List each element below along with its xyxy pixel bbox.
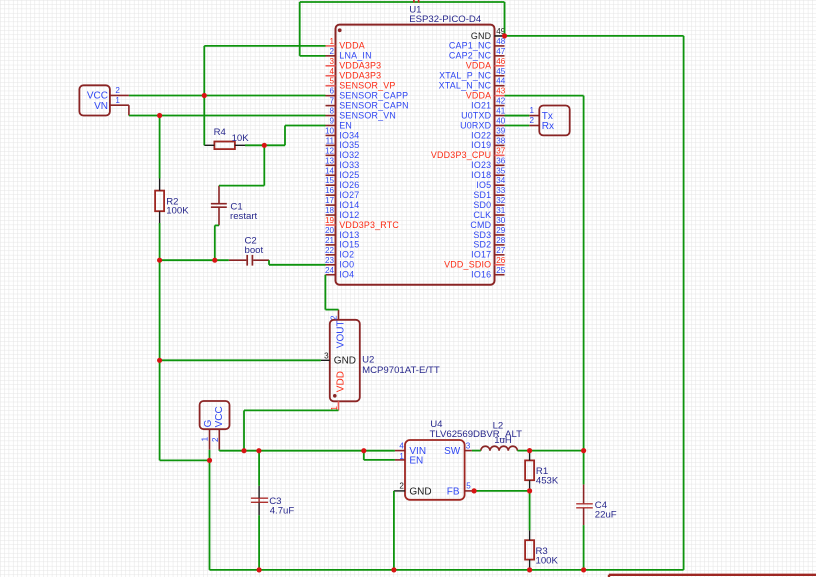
svg-text:IO22: IO22 <box>471 130 491 140</box>
svg-text:GND: GND <box>409 486 431 497</box>
U1 pin 9 EN <box>326 117 353 131</box>
svg-text:14: 14 <box>325 166 335 175</box>
U1 pin 12 IO32 <box>325 146 359 160</box>
wire U2 VDD branch vertical <box>243 410 245 450</box>
U4 pin 2 GND <box>394 481 432 497</box>
U1 pin 42 IO21 <box>471 97 506 111</box>
wire U0RXD to Rx <box>505 125 530 127</box>
svg-text:ESP32-PICO-D4: ESP32-PICO-D4 <box>409 14 482 25</box>
node U4 GND rail junction <box>391 567 396 572</box>
svg-text:29: 29 <box>496 226 506 235</box>
svg-text:LNA_IN: LNA_IN <box>339 51 371 61</box>
wire VIN rail horizontal <box>219 450 395 452</box>
svg-text:1: 1 <box>200 436 209 441</box>
svg-text:IO17: IO17 <box>471 250 491 260</box>
svg-text:G: G <box>203 419 214 427</box>
svg-text:4: 4 <box>329 67 334 76</box>
svg-text:restart: restart <box>230 211 258 222</box>
svg-text:IO25: IO25 <box>339 170 359 180</box>
U1 pin 5 SENSOR_VP <box>326 77 396 91</box>
U1 pin 21 IO15 <box>325 236 359 250</box>
svg-text:9: 9 <box>329 117 334 126</box>
wire U2 GND to R2 column <box>160 359 321 361</box>
svg-text:26: 26 <box>496 256 506 265</box>
wire C1 branch horizontal <box>219 185 264 187</box>
node G pin junction <box>207 458 212 463</box>
svg-text:3: 3 <box>324 351 329 360</box>
svg-text:38: 38 <box>496 136 506 145</box>
svg-text:IO2: IO2 <box>339 250 354 260</box>
svg-text:VOUT: VOUT <box>335 320 346 348</box>
connector pin 2 VCC stub <box>211 429 220 449</box>
svg-text:42: 42 <box>496 97 506 106</box>
svg-text:2: 2 <box>211 437 220 442</box>
resistor R2 leads <box>159 179 161 224</box>
svg-text:IO14: IO14 <box>339 200 359 210</box>
svg-text:R4: R4 <box>214 127 227 138</box>
node FB/R1/R3 junction <box>527 488 532 493</box>
connector J2 Tx/Rx body <box>539 106 569 136</box>
svg-text:47: 47 <box>496 47 506 56</box>
U1 pin 32 SD0 <box>473 196 505 210</box>
U1 pin 49 GND <box>471 27 506 41</box>
U1 pin 15 IO26 <box>325 176 359 190</box>
U2 pin 1 VDD <box>330 371 346 411</box>
svg-text:7: 7 <box>329 97 334 106</box>
svg-text:MCP9701AT-E/TT: MCP9701AT-E/TT <box>362 365 440 376</box>
wire bottom GND rail <box>210 569 684 571</box>
wire VCC junction down to R4 <box>203 96 205 146</box>
svg-text:VDD3P3_CPU: VDD3P3_CPU <box>431 150 491 160</box>
node L2/R1 junction <box>527 448 532 453</box>
svg-text:6: 6 <box>329 87 334 96</box>
node boot/C1 junction <box>212 258 217 263</box>
U1 pin 28 SD2 <box>473 236 505 250</box>
resistor R1 <box>525 460 534 480</box>
svg-text:IO13: IO13 <box>339 230 359 240</box>
U1 pin 3 VDDA3P3 <box>326 57 382 71</box>
svg-text:1uH: 1uH <box>494 435 512 446</box>
svg-text:10K: 10K <box>232 133 250 144</box>
svg-text:SENSOR_VN: SENSOR_VN <box>339 110 396 120</box>
svg-text:21: 21 <box>325 236 335 245</box>
svg-text:IO32: IO32 <box>339 150 359 160</box>
wire VCC net horizontal to U1 pin 6 <box>129 95 326 97</box>
U1 pin 2 LNA_IN <box>326 47 372 61</box>
U1 pin 47 CAP2_NC <box>449 47 506 61</box>
svg-text:100K: 100K <box>536 556 559 567</box>
svg-text:VDDA: VDDA <box>339 41 365 51</box>
U1 pin 14 IO25 <box>325 166 359 180</box>
svg-text:U0TXD: U0TXD <box>461 110 491 120</box>
U1 pin 45 XTAL_P_NC <box>439 67 506 81</box>
node U2 GND junction <box>157 358 162 363</box>
svg-text:3: 3 <box>466 442 471 451</box>
wire R4 right to EN corner <box>245 144 285 146</box>
wire U1 pin 24 to U2 VOUT <box>325 275 338 310</box>
svg-text:EN: EN <box>339 120 352 130</box>
svg-text:11: 11 <box>326 136 335 145</box>
U1 pin 24 IO4 <box>325 266 354 280</box>
wire U0TXD to Tx <box>505 115 530 117</box>
svg-text:12: 12 <box>325 146 335 155</box>
svg-text:8: 8 <box>329 107 334 116</box>
op-amp U4 body (TLV62569 regulator outline) <box>405 440 465 500</box>
node VDD branch junction <box>241 448 246 453</box>
svg-text:30: 30 <box>496 216 506 225</box>
svg-text:33: 33 <box>496 186 506 195</box>
U1 pin 48 CAP1_NC <box>449 37 506 51</box>
svg-text:16: 16 <box>325 186 335 195</box>
U1 pin 39 IO22 <box>471 126 506 140</box>
inductor L2 <box>481 446 518 451</box>
U1 pin 46 VDDA <box>466 57 506 71</box>
svg-text:20: 20 <box>325 226 335 235</box>
svg-text:IO19: IO19 <box>471 140 491 150</box>
svg-text:SENSOR_CAPN: SENSOR_CAPN <box>339 100 409 110</box>
wire G VCC pin down <box>218 450 220 451</box>
wire boot net horizontal <box>160 259 229 261</box>
svg-text:39: 39 <box>496 126 506 135</box>
U1 pin 23 IO0 <box>325 256 354 270</box>
wire LNA_IN vertical <box>299 2 301 56</box>
wire LNA_IN to U1 pin 2 <box>300 55 326 57</box>
svg-text:CLK: CLK <box>473 210 491 220</box>
power symbol tick 1 (cut off at top) <box>413 0 415 3</box>
svg-text:VDDA: VDDA <box>466 90 492 100</box>
wire bottom-left column horizontal <box>160 459 210 461</box>
power symbol tick 2 (cut off at top) <box>418 0 420 3</box>
wire C4 bottom to rail <box>583 525 585 570</box>
svg-text:46: 46 <box>496 57 506 66</box>
svg-text:IO21: IO21 <box>471 100 491 110</box>
svg-text:SD2: SD2 <box>473 240 491 250</box>
U1 pin 41 U0TXD <box>461 107 506 121</box>
wire EN jog vertical <box>363 451 365 460</box>
wire FB junction to R3 <box>529 491 531 531</box>
frame border (bottom right) <box>609 575 816 577</box>
svg-text:XTAL_N_NC: XTAL_N_NC <box>439 81 492 91</box>
wire U2 VDD net horizontal <box>244 409 339 411</box>
node C3 rail junction <box>257 567 262 572</box>
connector J3 G/VCC body <box>200 401 230 429</box>
svg-text:SD3: SD3 <box>473 230 491 240</box>
wire C3 top <box>258 451 260 486</box>
U2 pin 3 GND <box>321 351 356 366</box>
wire R2 column bottom <box>159 223 161 460</box>
U1 pin 13 IO33 <box>325 156 359 170</box>
connector pin 2 Rx stub <box>529 116 539 125</box>
svg-text:44: 44 <box>496 77 506 86</box>
wire C1 bottom jog <box>215 225 219 260</box>
wire C2 to U1 pin 23 jog <box>269 260 326 265</box>
svg-text:L2: L2 <box>493 421 504 432</box>
node VOUT/C4 junction <box>581 448 586 453</box>
svg-text:SD1: SD1 <box>473 190 491 200</box>
U1 pin 7 SENSOR_CAPN <box>326 97 409 111</box>
svg-text:31: 31 <box>496 206 506 215</box>
U1 pin 30 CMD <box>470 216 505 230</box>
node boot/R2 junction <box>157 258 162 263</box>
U1 pin 44 XTAL_N_NC <box>439 77 506 91</box>
wire VN net horizontal to U1 pin 8 <box>129 115 326 117</box>
node GND pin49 junction <box>502 33 507 38</box>
svg-text:23: 23 <box>325 256 335 265</box>
svg-text:2: 2 <box>115 86 120 95</box>
wire EN corner vertical <box>284 126 286 146</box>
resistor R3 <box>525 540 534 559</box>
svg-text:IO26: IO26 <box>339 180 359 190</box>
svg-text:IO33: IO33 <box>339 160 359 170</box>
svg-text:VDD_SDIO: VDD_SDIO <box>444 260 491 270</box>
svg-text:SENSOR_VP: SENSOR_VP <box>339 81 395 91</box>
U1 pin 6 SENSOR_CAPP <box>326 87 409 101</box>
U1 pin 35 IO18 <box>471 166 506 180</box>
wire G pin column vertical <box>209 450 211 570</box>
resistor R3 leads <box>529 530 531 570</box>
U1 pin 40 U0RXD <box>460 117 506 131</box>
svg-text:VN: VN <box>94 101 108 112</box>
svg-text:1: 1 <box>329 37 334 46</box>
wire VDDA to U1 pin 1 <box>204 45 325 47</box>
svg-text:CMD: CMD <box>470 220 491 230</box>
svg-text:IO4: IO4 <box>339 270 354 280</box>
U1 pin 20 IO13 <box>325 226 359 240</box>
capacitor C2 <box>229 255 269 266</box>
wire C3 bottom to rail <box>258 515 260 570</box>
svg-text:453K: 453K <box>536 476 559 487</box>
svg-text:4.7uF: 4.7uF <box>270 505 295 516</box>
svg-text:IO5: IO5 <box>476 180 491 190</box>
svg-text:VCC: VCC <box>214 406 225 427</box>
U1 pin 31 CLK <box>473 206 505 220</box>
node EN branch junction <box>361 448 366 453</box>
U4 pin 1 EN <box>395 452 423 467</box>
svg-text:EN: EN <box>409 455 423 466</box>
svg-text:19: 19 <box>325 216 335 225</box>
svg-text:IO27: IO27 <box>339 190 359 200</box>
svg-text:boot: boot <box>245 245 264 256</box>
svg-text:34: 34 <box>496 176 506 185</box>
svg-text:41: 41 <box>496 107 506 116</box>
svg-text:1: 1 <box>529 106 534 115</box>
svg-text:37: 37 <box>496 146 506 155</box>
svg-text:2: 2 <box>329 315 338 320</box>
svg-text:2: 2 <box>399 481 404 490</box>
wire top horizontal LNA net <box>300 1 505 3</box>
connector pin 1 G stub <box>200 429 209 450</box>
svg-text:IO34: IO34 <box>339 130 359 140</box>
svg-text:VDDA: VDDA <box>466 61 492 71</box>
wire inductor to VDDA column <box>517 450 583 452</box>
U1 pin 4 VDDA3P3 <box>326 67 382 81</box>
U1 pin 1 VDDA <box>326 37 365 51</box>
U1 pin 29 SD3 <box>473 226 505 240</box>
wire SW to inductor <box>472 450 481 452</box>
U1 pin 19 VDD3P3_RTC <box>325 216 399 230</box>
svg-text:IO0: IO0 <box>339 260 354 270</box>
node FB stub junction <box>472 488 477 493</box>
wire C1 branch vertical <box>263 145 265 185</box>
svg-text:27: 27 <box>496 246 506 255</box>
svg-text:Rx: Rx <box>542 121 554 132</box>
svg-text:18: 18 <box>325 206 335 215</box>
svg-text:IO35: IO35 <box>339 140 359 150</box>
svg-text:10: 10 <box>325 126 335 135</box>
svg-text:SENSOR_CAPP: SENSOR_CAPP <box>339 90 408 100</box>
svg-text:IO15: IO15 <box>339 240 359 250</box>
svg-text:24: 24 <box>325 266 335 275</box>
svg-text:IO16: IO16 <box>471 270 491 280</box>
svg-text:VDD3P3_RTC: VDD3P3_RTC <box>339 220 399 230</box>
svg-text:IO12: IO12 <box>339 210 359 220</box>
U1 pin 34 IO5 <box>476 176 505 190</box>
svg-text:40: 40 <box>496 117 506 126</box>
svg-text:VDD: VDD <box>335 371 346 392</box>
svg-text:13: 13 <box>325 156 335 165</box>
svg-text:45: 45 <box>496 67 506 76</box>
capacitor C4 <box>576 484 593 525</box>
wire VDDA pin 43 horizontal <box>505 95 584 97</box>
svg-text:22uF: 22uF <box>595 509 617 520</box>
svg-text:U0RXD: U0RXD <box>460 120 491 130</box>
connector pin 1 Tx stub <box>529 106 539 115</box>
op-amp U1 body (ESP32-PICO-D4 IC outline) <box>336 25 495 285</box>
U2 pin 2 VOUT <box>329 310 346 349</box>
wire EN jog horizontal <box>364 459 395 461</box>
connector J1 VCC/VN body <box>79 85 110 115</box>
svg-text:CAP2_NC: CAP2_NC <box>449 51 492 61</box>
svg-text:5: 5 <box>329 77 334 86</box>
svg-text:XTAL_P_NC: XTAL_P_NC <box>439 71 491 81</box>
U1 pin 22 IO2 <box>325 246 354 260</box>
node R3 rail junction <box>527 567 532 572</box>
connector pin 1 VN stub <box>110 96 129 116</box>
wire VDDA column vertical to C4 <box>583 96 585 485</box>
U4 pin 5 FB <box>447 481 474 497</box>
wire VDDA branch vertical <box>203 46 205 96</box>
svg-text:25: 25 <box>496 266 506 275</box>
svg-text:IO18: IO18 <box>471 170 491 180</box>
svg-text:36: 36 <box>496 156 506 165</box>
svg-text:VDDA3P3: VDDA3P3 <box>339 61 381 71</box>
U1 pin 38 IO19 <box>471 136 506 150</box>
wire GND top horizontal from U1 pin 49 <box>505 35 684 37</box>
svg-text:VDDA3P3: VDDA3P3 <box>339 71 381 81</box>
svg-text:5: 5 <box>466 481 471 490</box>
node C4 rail junction <box>581 567 586 572</box>
wire U4 GND down to rail <box>393 491 395 570</box>
svg-text:35: 35 <box>496 166 506 175</box>
wire FB net horizontal <box>474 490 529 492</box>
svg-text:15: 15 <box>325 176 335 185</box>
U1 pin 16 IO27 <box>325 186 359 200</box>
U1 pin 37 VDD3P3_CPU <box>431 146 506 160</box>
svg-text:3: 3 <box>329 57 334 66</box>
capacitor C1 <box>211 186 227 226</box>
node EN/C1 junction <box>262 143 267 148</box>
resistor R2 <box>155 191 164 212</box>
U1 pin 33 SD1 <box>473 186 505 200</box>
U4 pin 4 VIN <box>395 442 426 457</box>
svg-text:17: 17 <box>325 196 335 205</box>
svg-text:SD0: SD0 <box>473 200 491 210</box>
svg-text:100K: 100K <box>166 206 189 217</box>
U1 pin 18 IO12 <box>325 206 359 220</box>
wire right GND rail vertical <box>683 36 685 570</box>
svg-text:CAP1_NC: CAP1_NC <box>449 41 492 51</box>
svg-text:32: 32 <box>496 196 506 205</box>
svg-text:1: 1 <box>115 96 120 105</box>
node VN junction <box>157 113 162 118</box>
svg-text:2: 2 <box>529 116 534 125</box>
op-amp U2 body (MCP9701 sensor outline) <box>330 320 360 402</box>
U1 pin 10 IO34 <box>325 126 359 140</box>
svg-text:2: 2 <box>329 47 334 56</box>
U1 pin 36 IO23 <box>471 156 506 170</box>
svg-text:GND: GND <box>471 31 491 41</box>
resistor R4 <box>204 142 245 150</box>
connector pin 2 VCC stub <box>110 86 129 96</box>
U4 pin 3 SW <box>444 442 472 457</box>
svg-text:4: 4 <box>399 442 404 451</box>
svg-text:22: 22 <box>325 246 335 255</box>
svg-text:SW: SW <box>444 446 461 457</box>
wire top right vertical to pin 49 <box>504 2 506 36</box>
svg-text:IO23: IO23 <box>471 160 491 170</box>
wire EN to U1 pin 9 <box>285 125 326 127</box>
node C3 branch junction <box>256 448 261 453</box>
U1 pin 11 IO35 <box>326 136 360 150</box>
U1 pin 17 IO14 <box>325 196 359 210</box>
U1 pin 8 SENSOR_VN <box>326 107 397 121</box>
svg-text:GND: GND <box>334 356 356 367</box>
node VCC junction <box>202 93 207 98</box>
U1 pin 25 IO16 <box>471 266 506 280</box>
U1 pin 43 VDDA <box>466 87 506 101</box>
svg-text:28: 28 <box>496 236 506 245</box>
capacitor C3 <box>251 486 268 516</box>
svg-text:43: 43 <box>496 87 506 96</box>
svg-text:1: 1 <box>399 452 404 461</box>
U1 pin 26 VDD_SDIO <box>444 256 506 270</box>
resistor R1 leads <box>529 452 531 491</box>
svg-text:FB: FB <box>447 486 460 497</box>
U1 pin 27 IO17 <box>471 246 506 260</box>
wire R2 column top <box>159 116 161 179</box>
